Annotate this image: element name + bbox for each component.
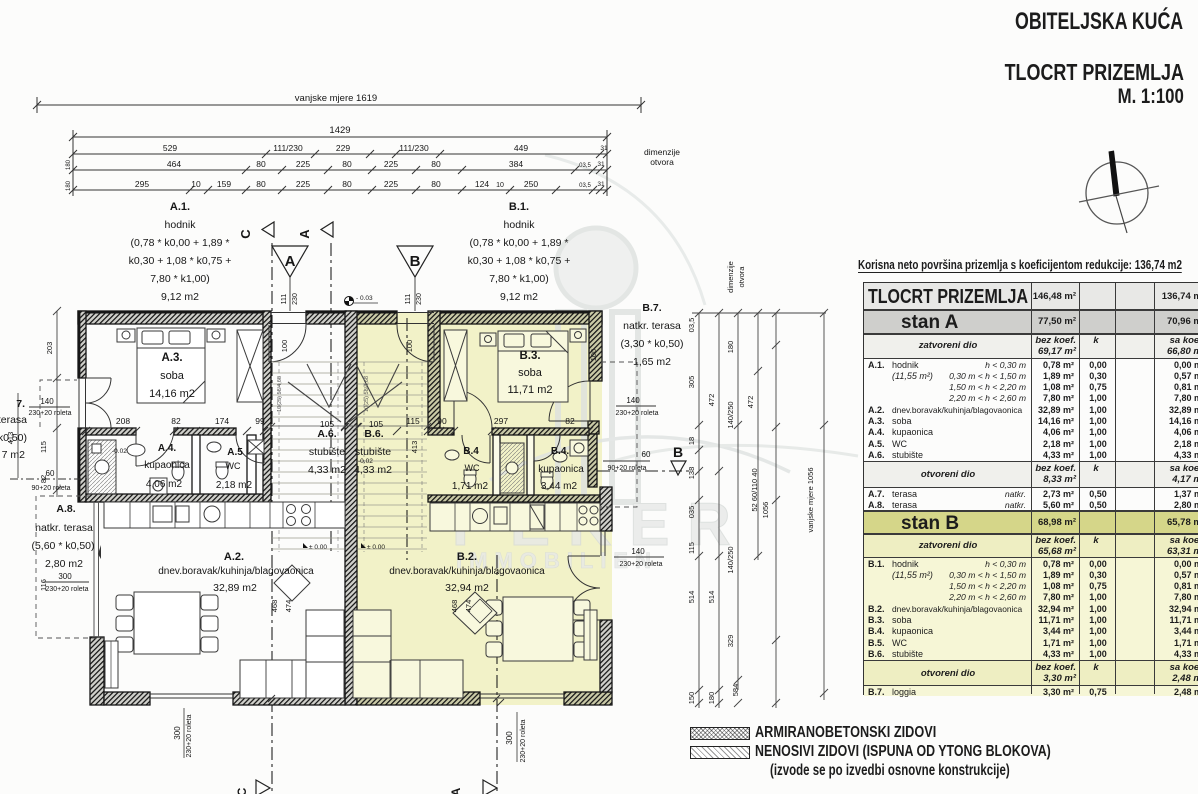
- svg-text:1429: 1429: [329, 125, 350, 136]
- svg-text:52 60/110 40: 52 60/110 40: [750, 468, 759, 511]
- svg-text:terasa: terasa: [0, 414, 27, 426]
- svg-text:115: 115: [406, 416, 420, 426]
- svg-text:10: 10: [191, 179, 201, 189]
- svg-text:4,33 m2: 4,33 m2: [354, 464, 392, 476]
- svg-text:180: 180: [726, 341, 735, 354]
- svg-text:230: 230: [292, 293, 299, 305]
- svg-text:468: 468: [450, 600, 459, 613]
- svg-text:4,06 m2: 4,06 m2: [146, 479, 183, 490]
- svg-text:529: 529: [163, 143, 177, 153]
- svg-text:468: 468: [270, 600, 279, 613]
- svg-text:90+20 roleta: 90+20 roleta: [31, 485, 70, 492]
- svg-text:B.1.: B.1.: [509, 201, 529, 213]
- svg-text:80: 80: [342, 179, 352, 189]
- svg-text:100: 100: [280, 340, 289, 353]
- svg-text:A.3.: A.3.: [161, 352, 182, 364]
- svg-text:hodnik: hodnik: [165, 219, 197, 231]
- svg-text:03,5: 03,5: [579, 163, 591, 169]
- svg-text:B.4.: B.4.: [551, 446, 570, 457]
- svg-text:B.6.: B.6.: [364, 428, 383, 440]
- svg-text:140: 140: [631, 547, 645, 556]
- svg-text:174: 174: [215, 416, 229, 426]
- svg-text:7,80 * k1,00): 7,80 * k1,00): [489, 273, 549, 285]
- svg-text:A.8.: A.8.: [56, 503, 75, 515]
- svg-text:A.1.: A.1.: [170, 201, 190, 213]
- svg-text:180: 180: [66, 159, 72, 170]
- svg-text:150: 150: [687, 692, 696, 705]
- svg-text:80: 80: [256, 179, 266, 189]
- svg-text:dimenzije: dimenzije: [726, 261, 735, 293]
- svg-text:180: 180: [707, 692, 716, 705]
- svg-text:305: 305: [687, 376, 696, 389]
- svg-text:99: 99: [255, 416, 265, 426]
- svg-text:stubište: stubište: [309, 446, 345, 458]
- svg-text:kupaonica: kupaonica: [538, 464, 584, 475]
- svg-text:natkr. terasa: natkr. terasa: [623, 320, 681, 332]
- svg-text:230+20 roleta: 230+20 roleta: [45, 586, 88, 593]
- svg-text:413: 413: [410, 441, 419, 454]
- svg-text:B.4: B.4: [463, 446, 479, 457]
- svg-text:90+20 roleta: 90+20 roleta: [607, 465, 646, 472]
- svg-text:A.4.: A.4.: [158, 443, 177, 454]
- svg-text:WC: WC: [465, 463, 480, 473]
- svg-text:295: 295: [135, 179, 149, 189]
- svg-text:300: 300: [505, 731, 514, 745]
- svg-text:584: 584: [731, 684, 740, 697]
- svg-text:A.2.: A.2.: [224, 551, 244, 563]
- svg-text:dnev.boravak/kuhinja/blagovaon: dnev.boravak/kuhinja/blagovaonica: [389, 566, 545, 577]
- svg-text:(3,30 * k0,50): (3,30 * k0,50): [620, 338, 683, 350]
- svg-text:3,44 m2: 3,44 m2: [541, 481, 578, 492]
- svg-text:229: 229: [336, 143, 350, 153]
- svg-text:203: 203: [45, 342, 54, 355]
- svg-text:stubište: stubište: [355, 446, 391, 458]
- svg-text:472: 472: [746, 396, 755, 409]
- svg-text:natkr. terasa: natkr. terasa: [35, 522, 93, 534]
- svg-text:472: 472: [707, 394, 716, 407]
- svg-text:80: 80: [342, 159, 352, 169]
- svg-text:105: 105: [320, 419, 334, 429]
- svg-text:10(25) 58/4,68: 10(25) 58/4,68: [364, 376, 370, 412]
- svg-text:230+20 roleta: 230+20 roleta: [28, 410, 71, 417]
- svg-text:03,5: 03,5: [687, 318, 696, 333]
- svg-text:soba: soba: [518, 367, 543, 379]
- svg-text:140: 140: [40, 397, 54, 406]
- svg-text:± 0.00: ± 0.00: [309, 544, 327, 551]
- svg-text:82: 82: [171, 416, 181, 426]
- svg-text:1,71 m2: 1,71 m2: [452, 481, 489, 492]
- svg-text:A: A: [285, 253, 296, 270]
- svg-text:C: C: [238, 229, 253, 239]
- svg-text:225: 225: [296, 159, 310, 169]
- svg-text:vanjske mjere 1619: vanjske mjere 1619: [295, 93, 377, 104]
- svg-text:otvora: otvora: [737, 266, 746, 288]
- svg-text:111/230: 111/230: [273, 143, 303, 153]
- svg-text:B: B: [410, 253, 421, 270]
- svg-text:225: 225: [384, 159, 398, 169]
- svg-text:vanjske mjere 1056: vanjske mjere 1056: [806, 467, 815, 532]
- svg-text:035: 035: [687, 506, 696, 519]
- svg-text:464: 464: [167, 159, 181, 169]
- svg-text:(0,78 * k0,00 + 1,89 *: (0,78 * k0,00 + 1,89 *: [470, 237, 569, 249]
- svg-text:225: 225: [384, 179, 398, 189]
- svg-text:138: 138: [687, 467, 696, 480]
- svg-text:(0,78 * k0,00 + 1,89 *: (0,78 * k0,00 + 1,89 *: [131, 237, 230, 249]
- svg-text:111: 111: [405, 294, 412, 305]
- svg-text:115: 115: [687, 542, 696, 554]
- svg-text:105: 105: [369, 419, 383, 429]
- svg-text:9,12 m2: 9,12 m2: [161, 291, 199, 303]
- svg-text:soba: soba: [160, 370, 185, 382]
- svg-text:300: 300: [58, 572, 72, 581]
- svg-text:- 0.03: - 0.03: [356, 295, 373, 302]
- svg-text:60: 60: [46, 469, 55, 478]
- svg-text:B: B: [673, 444, 683, 460]
- svg-text:2,18 m2: 2,18 m2: [216, 480, 253, 491]
- svg-text:384: 384: [509, 159, 523, 169]
- svg-text:7,80 * k1,00): 7,80 * k1,00): [150, 273, 210, 285]
- svg-text:80: 80: [431, 179, 441, 189]
- svg-text:514: 514: [707, 591, 716, 604]
- svg-text:80: 80: [431, 159, 441, 169]
- svg-text:(5,60 * k0,50): (5,60 * k0,50): [31, 540, 94, 552]
- svg-text:-0.02: -0.02: [112, 448, 127, 455]
- svg-text:dimenzije: dimenzije: [644, 147, 680, 157]
- svg-text:124: 124: [475, 179, 489, 189]
- svg-text:-0.02: -0.02: [358, 458, 373, 465]
- svg-text:WC: WC: [226, 461, 241, 471]
- svg-text:B.7.: B.7.: [642, 302, 661, 314]
- svg-text:474: 474: [464, 600, 473, 613]
- svg-text:hodnik: hodnik: [504, 219, 536, 231]
- svg-text:60: 60: [642, 450, 651, 459]
- svg-text:474: 474: [284, 600, 293, 613]
- svg-text:111: 111: [281, 294, 288, 305]
- svg-text:03,5: 03,5: [579, 183, 591, 189]
- svg-text:225: 225: [296, 179, 310, 189]
- svg-text:9,12 m2: 9,12 m2: [500, 291, 538, 303]
- svg-text:A: A: [297, 229, 312, 239]
- svg-text:514: 514: [687, 591, 696, 604]
- svg-text:A.6.: A.6.: [317, 428, 336, 440]
- svg-text:k0,30 + 1,08 * k0,75 +: k0,30 + 1,08 * k0,75 +: [129, 255, 232, 267]
- svg-text:11,71 m2: 11,71 m2: [507, 384, 552, 396]
- svg-text:31: 31: [600, 145, 608, 152]
- svg-text:208: 208: [116, 416, 130, 426]
- svg-text:k0,30 + 1,08 * k0,75 +: k0,30 + 1,08 * k0,75 +: [468, 255, 571, 267]
- svg-text:100: 100: [405, 340, 414, 353]
- svg-text:A.5: A.5: [227, 447, 243, 458]
- svg-text:230+20 roleta: 230+20 roleta: [520, 719, 527, 762]
- svg-text:449: 449: [514, 143, 528, 153]
- svg-text:115: 115: [39, 441, 48, 453]
- svg-text:31: 31: [597, 181, 605, 188]
- svg-text:90: 90: [437, 416, 447, 426]
- svg-text:300: 300: [173, 726, 182, 740]
- svg-text:140/250: 140/250: [726, 401, 735, 428]
- svg-text:* k0,50): * k0,50): [0, 432, 27, 444]
- svg-text:32,94 m2: 32,94 m2: [445, 582, 489, 594]
- svg-text:297: 297: [494, 416, 508, 426]
- svg-text:C: C: [235, 787, 249, 794]
- svg-text:230+20 roleta: 230+20 roleta: [619, 561, 662, 568]
- svg-text:18: 18: [687, 437, 696, 445]
- svg-text:1,65 m2: 1,65 m2: [633, 356, 671, 368]
- svg-text:B.3.: B.3.: [519, 350, 540, 362]
- svg-text:230: 230: [416, 293, 423, 305]
- svg-text:159: 159: [217, 179, 231, 189]
- svg-text:± 0.00: ± 0.00: [367, 544, 385, 551]
- svg-text:111/230: 111/230: [399, 143, 429, 153]
- svg-text:230+20 roleta: 230+20 roleta: [186, 714, 193, 757]
- svg-text:4,33 m2: 4,33 m2: [308, 464, 346, 476]
- svg-text:14,16 m2: 14,16 m2: [149, 388, 195, 400]
- svg-text:140/250: 140/250: [726, 546, 735, 573]
- svg-text:dnev.boravak/kuhinja/blagovaon: dnev.boravak/kuhinja/blagovaonica: [158, 566, 314, 577]
- svg-text:7.: 7.: [16, 398, 25, 410]
- svg-text:10(25) 58/4,68: 10(25) 58/4,68: [277, 376, 283, 412]
- svg-text:180: 180: [66, 180, 72, 191]
- svg-text:10: 10: [496, 182, 504, 189]
- svg-text:32,89 m2: 32,89 m2: [213, 582, 257, 594]
- svg-text:100: 100: [589, 349, 598, 362]
- svg-text:80: 80: [256, 159, 266, 169]
- svg-text:140: 140: [626, 396, 640, 405]
- svg-text:7 m2: 7 m2: [2, 449, 26, 461]
- svg-text:31: 31: [597, 161, 605, 168]
- svg-text:82: 82: [565, 416, 575, 426]
- svg-text:A: A: [449, 787, 463, 794]
- svg-text:329: 329: [726, 635, 735, 648]
- svg-text:250: 250: [524, 179, 538, 189]
- svg-text:otvora: otvora: [650, 157, 674, 167]
- svg-text:B.2.: B.2.: [457, 551, 477, 563]
- svg-text:2,80 m2: 2,80 m2: [45, 558, 83, 570]
- svg-text:kupaonica: kupaonica: [144, 460, 190, 471]
- svg-text:1056: 1056: [761, 502, 770, 519]
